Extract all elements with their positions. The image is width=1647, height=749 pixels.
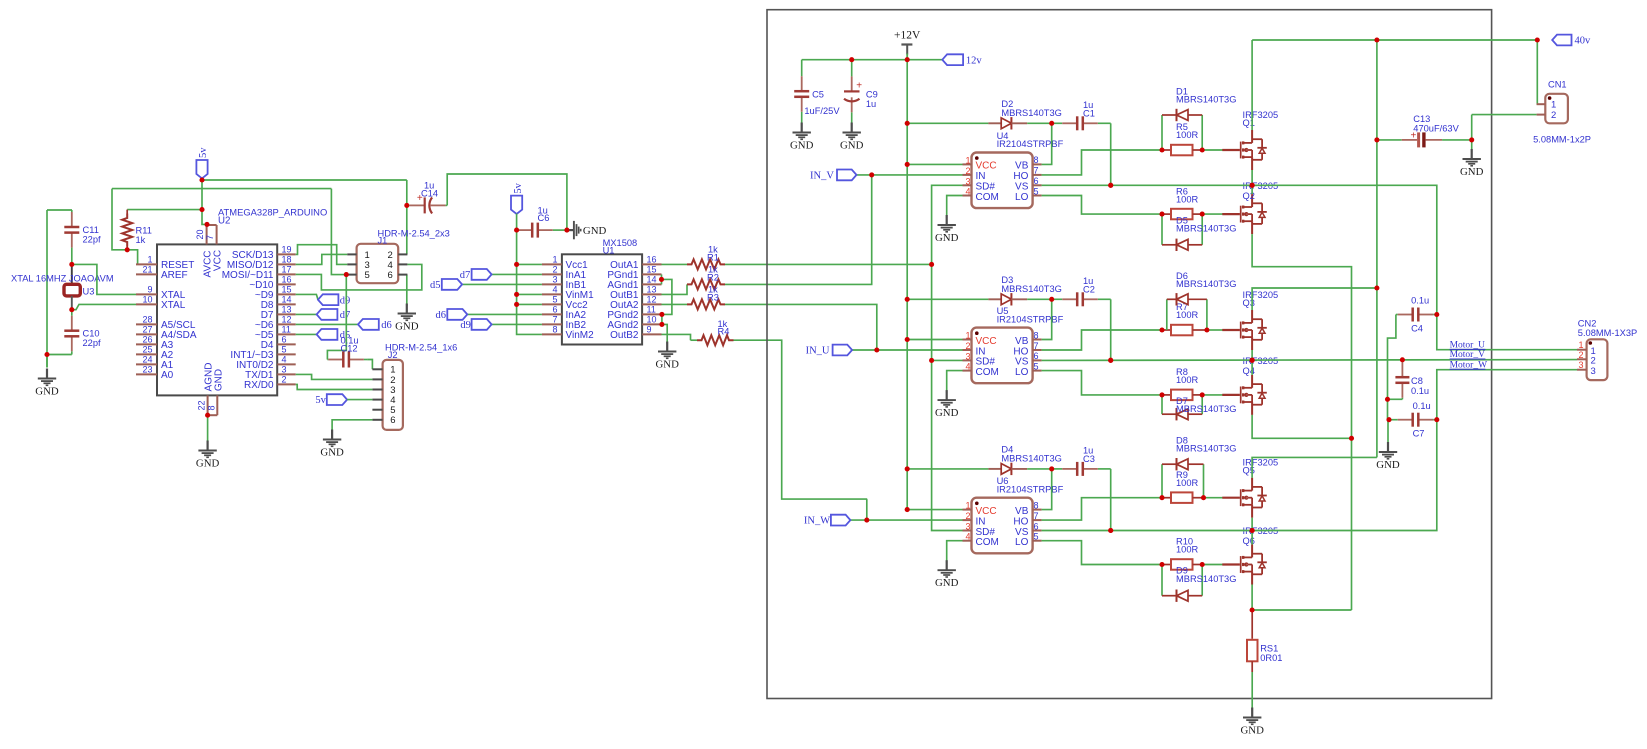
svg-text:100R: 100R (1176, 194, 1199, 204)
svg-text:GND: GND (935, 232, 959, 244)
svg-text:GND: GND (320, 446, 344, 458)
svg-text:6: 6 (388, 270, 393, 281)
svg-text:1: 1 (1551, 100, 1556, 111)
svg-text:8: 8 (207, 405, 217, 410)
svg-text:IN: IN (976, 171, 986, 182)
svg-text:6: 6 (390, 415, 395, 426)
svg-text:3: 3 (965, 351, 970, 361)
svg-text:VB: VB (1015, 506, 1029, 517)
svg-text:COM: COM (976, 367, 999, 378)
svg-text:5v: 5v (513, 182, 524, 193)
svg-text:HO: HO (1013, 516, 1028, 527)
svg-text:1: 1 (552, 254, 557, 264)
svg-text:2: 2 (1591, 356, 1596, 367)
svg-text:Q5: Q5 (1243, 466, 1255, 476)
svg-text:22: 22 (197, 400, 207, 410)
svg-text:C13: C13 (1413, 114, 1430, 124)
svg-text:20: 20 (195, 229, 205, 239)
svg-text:2: 2 (1578, 350, 1583, 360)
svg-text:9: 9 (147, 284, 152, 294)
svg-text:12v: 12v (966, 55, 983, 66)
svg-text:VCC: VCC (213, 250, 224, 271)
svg-text:GND: GND (196, 457, 220, 469)
svg-text:13: 13 (647, 284, 657, 294)
svg-text:HO: HO (1013, 346, 1028, 357)
svg-text:16: 16 (647, 254, 657, 264)
svg-text:GND: GND (1376, 459, 1400, 471)
svg-text:d9: d9 (460, 320, 471, 331)
svg-text:GND: GND (583, 225, 607, 237)
svg-text:5: 5 (552, 294, 557, 304)
svg-text:R4: R4 (718, 326, 730, 336)
svg-text:9: 9 (647, 324, 652, 334)
svg-text:4: 4 (552, 284, 557, 294)
svg-text:MBRS140T3G: MBRS140T3G (1176, 574, 1236, 584)
svg-text:C1: C1 (1083, 109, 1095, 119)
svg-text:J1: J1 (378, 236, 388, 246)
svg-text:15: 15 (282, 284, 292, 294)
svg-text:C9: C9 (866, 90, 878, 100)
svg-text:0.1u: 0.1u (1413, 401, 1431, 411)
svg-text:28: 28 (142, 314, 152, 324)
svg-text:7: 7 (205, 235, 215, 240)
svg-text:HDR-M-2.54_2x3: HDR-M-2.54_2x3 (378, 229, 450, 239)
svg-text:C3: C3 (1083, 454, 1095, 464)
svg-text:d6: d6 (436, 310, 447, 321)
svg-text:11: 11 (282, 324, 291, 334)
svg-text:CN2: CN2 (1578, 319, 1597, 329)
svg-text:19: 19 (282, 244, 292, 254)
svg-text:VinM2: VinM2 (566, 330, 595, 341)
svg-text:C7: C7 (1413, 429, 1425, 439)
svg-text:C10: C10 (83, 329, 100, 339)
svg-text:2: 2 (1551, 110, 1556, 121)
svg-text:VCC: VCC (976, 161, 997, 172)
svg-text:1: 1 (1578, 340, 1583, 350)
svg-text:0R01: 0R01 (1260, 653, 1282, 663)
svg-text:0.1u: 0.1u (1411, 386, 1429, 396)
svg-text:1: 1 (965, 501, 970, 511)
svg-text:OutB2: OutB2 (610, 330, 639, 341)
svg-text:4: 4 (965, 532, 970, 542)
svg-text:R1: R1 (707, 253, 719, 263)
svg-text:IN: IN (976, 346, 986, 357)
svg-text:24: 24 (142, 354, 152, 364)
svg-text:R2: R2 (707, 273, 719, 283)
svg-text:VB: VB (1015, 336, 1029, 347)
svg-text:5: 5 (1034, 532, 1039, 542)
svg-text:LO: LO (1015, 537, 1029, 548)
svg-text:27: 27 (142, 324, 152, 334)
svg-text:MBRS140T3G: MBRS140T3G (1001, 454, 1061, 464)
svg-text:23: 23 (142, 364, 152, 374)
svg-text:6: 6 (552, 304, 557, 314)
svg-text:COM: COM (976, 192, 999, 203)
svg-text:10: 10 (142, 294, 152, 304)
svg-text:3: 3 (1591, 366, 1596, 377)
svg-text:J2: J2 (388, 350, 398, 360)
svg-text:IN_U: IN_U (806, 346, 830, 357)
svg-text:4: 4 (965, 362, 970, 372)
svg-text:2: 2 (965, 341, 970, 351)
svg-text:14: 14 (647, 274, 657, 284)
svg-text:25: 25 (142, 344, 152, 354)
svg-text:MBRS140T3G: MBRS140T3G (1176, 444, 1236, 454)
svg-text:C2: C2 (1083, 285, 1095, 295)
svg-text:11: 11 (647, 304, 656, 314)
svg-text:IN_W: IN_W (804, 516, 830, 527)
svg-text:IR2104STRPBF: IR2104STRPBF (997, 484, 1064, 494)
svg-text:d5: d5 (430, 280, 441, 291)
svg-text:2: 2 (965, 511, 970, 521)
svg-text:3: 3 (1578, 360, 1583, 370)
svg-text:C12: C12 (341, 344, 358, 354)
svg-text:d6: d6 (381, 320, 392, 331)
svg-text:1: 1 (965, 155, 970, 165)
svg-text:5.08MM-1x2P: 5.08MM-1x2P (1533, 135, 1591, 145)
svg-text:3: 3 (552, 274, 557, 284)
svg-text:6: 6 (1034, 351, 1039, 361)
svg-text:MBRS140T3G: MBRS140T3G (1176, 404, 1236, 414)
svg-text:1u: 1u (866, 99, 876, 109)
svg-text:IR2104STRPBF: IR2104STRPBF (997, 314, 1064, 324)
svg-text:6: 6 (1034, 521, 1039, 531)
svg-text:10: 10 (647, 314, 657, 324)
svg-text:U1: U1 (603, 246, 615, 256)
svg-text:100R: 100R (1176, 130, 1199, 140)
svg-text:XTAL: XTAL (161, 300, 186, 311)
svg-text:MBRS140T3G: MBRS140T3G (1176, 95, 1236, 105)
svg-text:7: 7 (1034, 166, 1039, 176)
svg-text:LO: LO (1015, 367, 1029, 378)
svg-text:C5: C5 (812, 90, 824, 100)
svg-text:8: 8 (552, 324, 557, 334)
svg-text:VCC: VCC (976, 506, 997, 517)
svg-text:GND: GND (35, 385, 59, 397)
svg-text:GND: GND (214, 369, 225, 391)
svg-text:CN1: CN1 (1548, 80, 1567, 90)
svg-text:d9: d9 (340, 295, 351, 306)
svg-text:1k: 1k (136, 235, 146, 245)
svg-text:1uF/25V: 1uF/25V (804, 106, 840, 116)
svg-text:MBRS140T3G: MBRS140T3G (1176, 279, 1236, 289)
svg-text:22pf: 22pf (83, 338, 102, 348)
svg-text:U2: U2 (218, 216, 230, 227)
svg-text:LO: LO (1015, 192, 1029, 203)
svg-text:d7: d7 (340, 310, 351, 321)
svg-text:3: 3 (965, 522, 970, 532)
svg-text:VB: VB (1015, 161, 1029, 172)
svg-text:GND: GND (790, 139, 814, 151)
svg-text:16: 16 (282, 274, 292, 284)
svg-text:GND: GND (1460, 166, 1484, 178)
svg-text:18: 18 (282, 254, 292, 264)
svg-text:22pf: 22pf (83, 235, 102, 245)
svg-text:GND: GND (1240, 724, 1264, 736)
svg-text:R11: R11 (136, 226, 152, 236)
svg-text:GND: GND (935, 577, 959, 589)
svg-text:Q6: Q6 (1243, 536, 1255, 546)
svg-text:3: 3 (965, 176, 970, 186)
svg-text:2: 2 (282, 374, 287, 384)
svg-text:+12V: +12V (894, 30, 921, 42)
svg-text:12: 12 (282, 314, 292, 324)
svg-text:VCC: VCC (976, 336, 997, 347)
svg-text:0.1u: 0.1u (1411, 296, 1429, 306)
svg-text:MBRS140T3G: MBRS140T3G (1176, 223, 1236, 233)
svg-text:C4: C4 (1411, 324, 1423, 334)
svg-text:7: 7 (1034, 511, 1039, 521)
svg-text:5: 5 (282, 344, 287, 354)
svg-text:3: 3 (282, 364, 287, 374)
svg-text:MBRS140T3G: MBRS140T3G (1001, 284, 1061, 294)
svg-text:GND: GND (840, 139, 864, 151)
svg-text:ATMEGA328P_ARDUINO: ATMEGA328P_ARDUINO (218, 207, 327, 218)
svg-text:100R: 100R (1176, 478, 1199, 488)
svg-text:1: 1 (965, 331, 970, 341)
svg-text:COM: COM (976, 537, 999, 548)
svg-text:17: 17 (282, 264, 292, 274)
svg-text:C11: C11 (83, 225, 99, 235)
svg-text:4: 4 (965, 187, 970, 197)
svg-text:5: 5 (365, 270, 370, 281)
svg-text:100R: 100R (1176, 375, 1199, 385)
svg-text:5v: 5v (198, 147, 209, 158)
svg-text:IR2104STRPBF: IR2104STRPBF (997, 139, 1064, 149)
svg-text:5v: 5v (315, 395, 326, 406)
svg-text:Q2: Q2 (1243, 191, 1255, 201)
svg-text:5.08MM-1X3P: 5.08MM-1X3P (1578, 328, 1637, 338)
svg-text:12: 12 (647, 294, 657, 304)
svg-text:13: 13 (282, 304, 292, 314)
svg-text:AREF: AREF (161, 270, 188, 281)
svg-text:7: 7 (1034, 341, 1039, 351)
svg-text:2: 2 (965, 166, 970, 176)
svg-text:100R: 100R (1176, 545, 1199, 555)
svg-text:RX/D0: RX/D0 (244, 380, 274, 391)
svg-text:7: 7 (552, 314, 557, 324)
svg-text:GND: GND (655, 358, 679, 370)
svg-text:RS1: RS1 (1260, 644, 1278, 654)
svg-text:IN: IN (976, 516, 986, 527)
svg-text:14: 14 (282, 294, 292, 304)
svg-text:470uF/63V: 470uF/63V (1413, 124, 1459, 134)
svg-text:8: 8 (1034, 155, 1039, 165)
svg-text:6: 6 (1034, 176, 1039, 186)
svg-text:MBRS140T3G: MBRS140T3G (1001, 108, 1061, 118)
svg-text:IN_V: IN_V (810, 171, 834, 182)
svg-text:26: 26 (142, 334, 152, 344)
svg-text:5: 5 (1034, 186, 1039, 196)
svg-text:5: 5 (1034, 361, 1039, 371)
svg-text:8: 8 (1034, 330, 1039, 340)
svg-text:GND: GND (395, 320, 419, 332)
svg-text:21: 21 (142, 264, 152, 274)
svg-text:GND: GND (935, 407, 959, 419)
svg-text:Q3: Q3 (1243, 298, 1255, 308)
svg-text:d7: d7 (460, 270, 471, 281)
svg-text:A0: A0 (161, 370, 174, 381)
svg-text:U3: U3 (83, 287, 95, 297)
svg-text:8: 8 (1034, 500, 1039, 510)
svg-text:15: 15 (647, 264, 657, 274)
svg-text:C6: C6 (538, 213, 550, 223)
svg-text:R3: R3 (707, 293, 719, 303)
svg-text:Q4: Q4 (1243, 366, 1255, 376)
svg-text:Q1: Q1 (1243, 118, 1255, 128)
svg-text:2: 2 (552, 264, 557, 274)
svg-text:40v: 40v (1575, 36, 1592, 47)
svg-text:+: + (856, 81, 862, 92)
svg-text:100R: 100R (1176, 310, 1199, 320)
svg-text:C8: C8 (1411, 376, 1423, 386)
svg-text:XTAL 16MHZ JOAOAVM: XTAL 16MHZ JOAOAVM (11, 274, 114, 284)
svg-text:4: 4 (282, 354, 287, 364)
svg-text:1: 1 (147, 254, 152, 264)
svg-text:HO: HO (1013, 171, 1028, 182)
svg-text:6: 6 (282, 334, 287, 344)
svg-text:C14: C14 (421, 189, 438, 199)
